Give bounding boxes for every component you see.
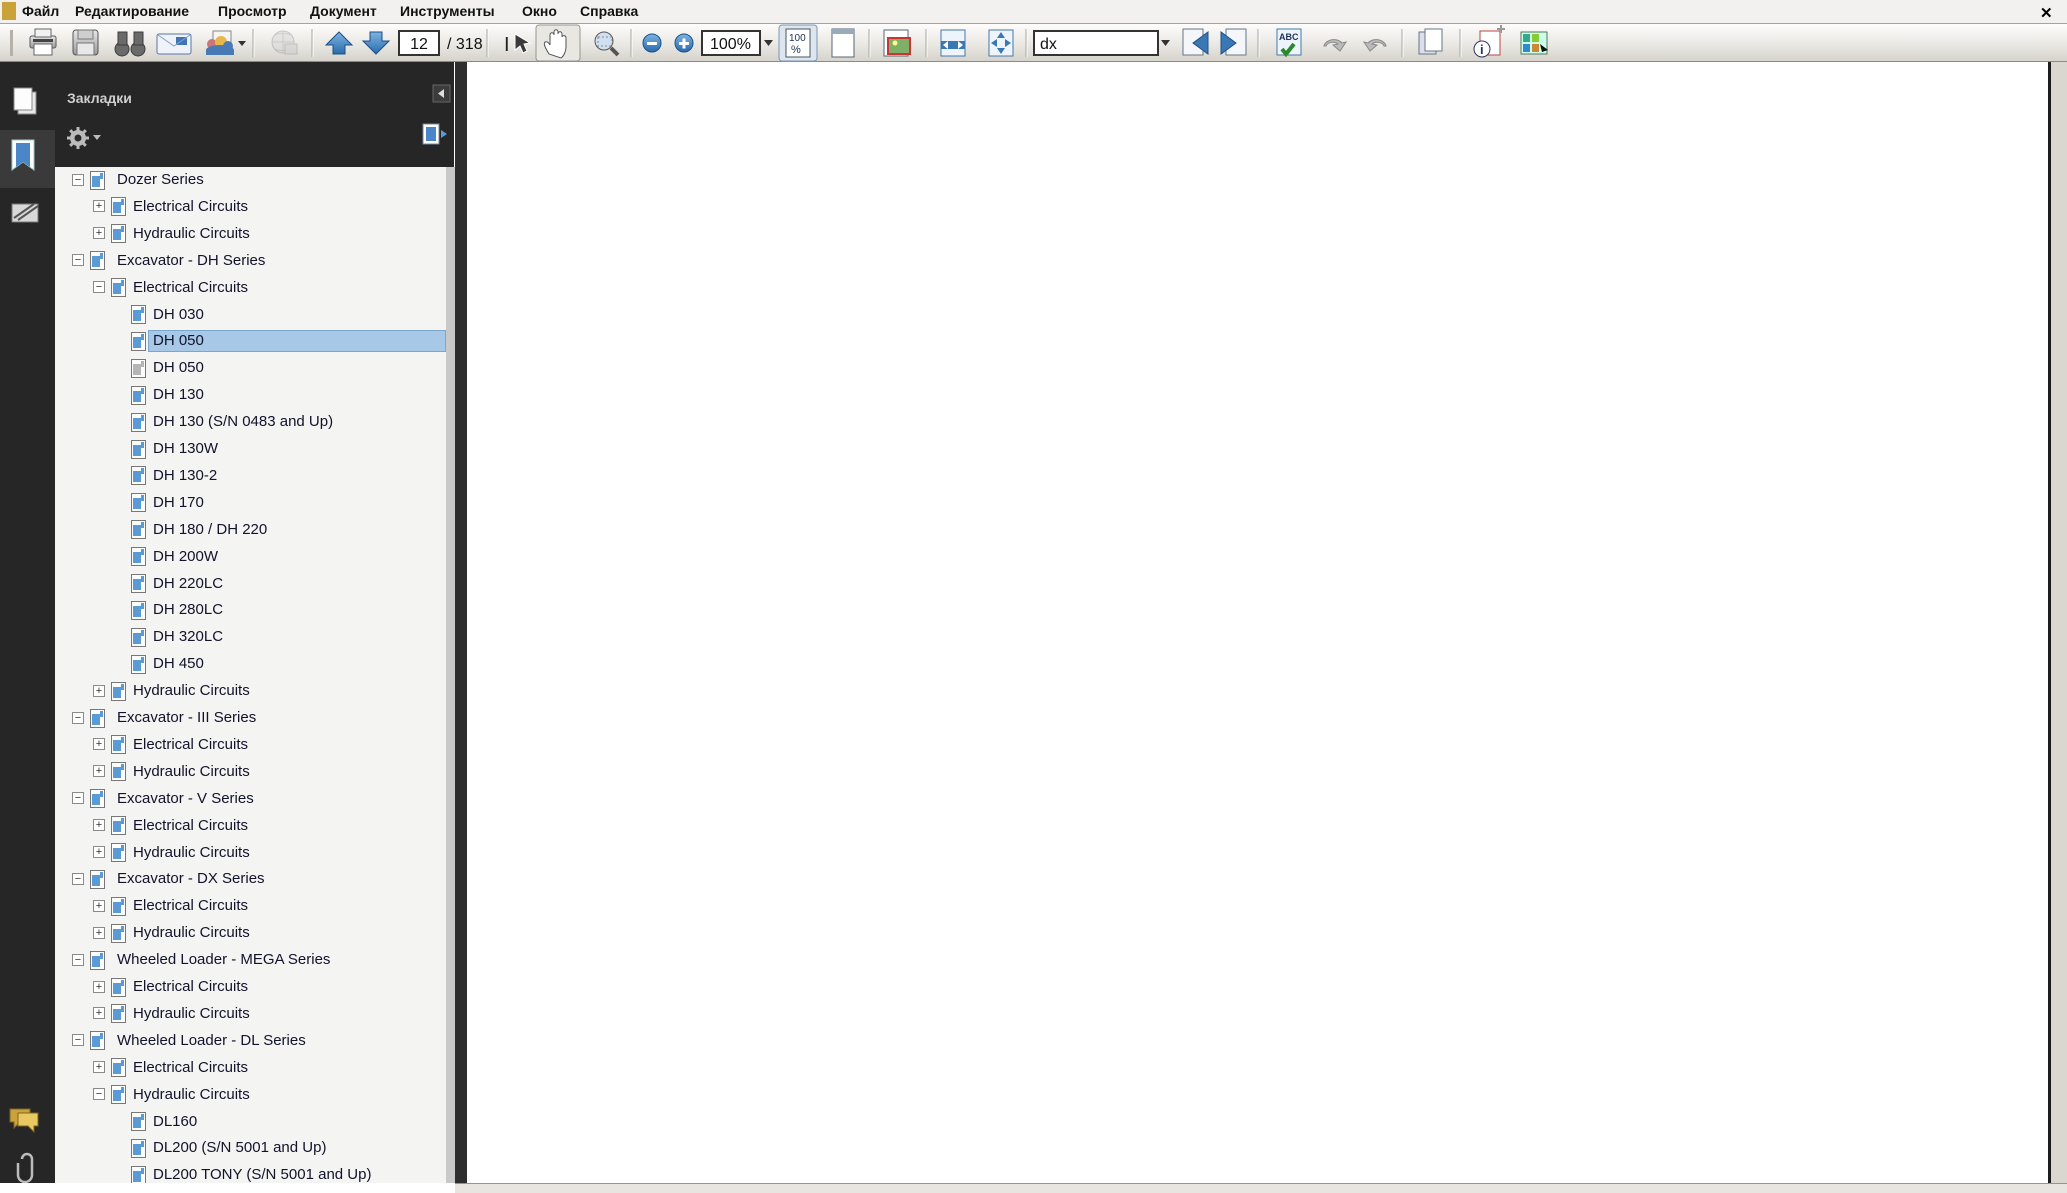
svg-text:/ 318: / 318 — [447, 36, 483, 53]
svg-text:i: i — [1480, 42, 1484, 57]
svg-text:12: 12 — [410, 36, 428, 53]
svg-text:100: 100 — [789, 33, 806, 44]
svg-text:100%: 100% — [710, 36, 751, 53]
svg-text:dx: dx — [1040, 36, 1057, 53]
svg-text:%: % — [791, 44, 801, 56]
svg-text:I: I — [504, 34, 510, 56]
svg-text:ABC: ABC — [1279, 32, 1299, 42]
